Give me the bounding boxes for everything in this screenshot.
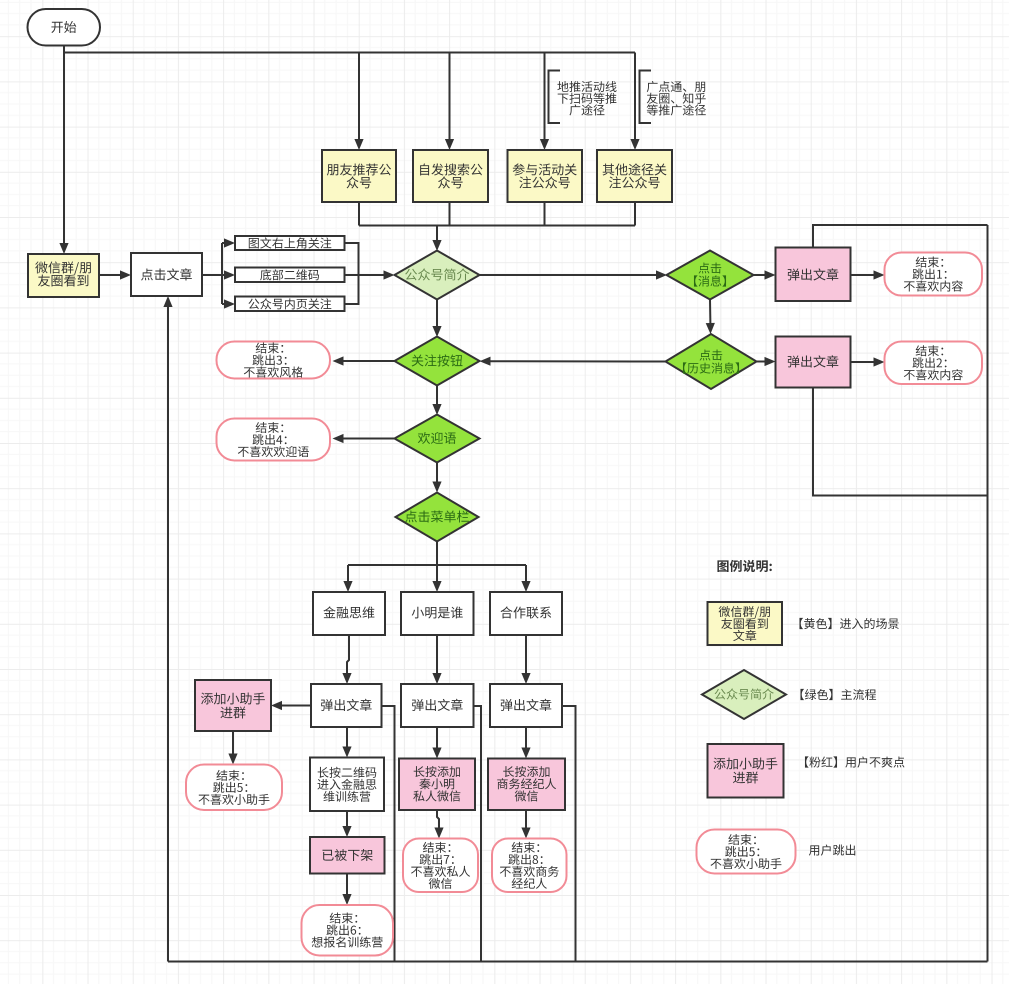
node pink 长按添加秦小明私人微信: [399, 759, 475, 811]
wire drop to yellow box1: [358, 53, 360, 141]
node yellow box4 其他途径关注公众号: [597, 150, 672, 202]
legend end box 结束跳出5 不喜欢小助手: [697, 830, 796, 874]
legend label 粉红用户不爽点: [805, 756, 904, 767]
wire add-broker down to end8: [525, 810, 527, 829]
wire menu-bar down and split to three menu boxes: [436, 542, 438, 565]
wire click-article split to three follow boxes: [202, 274, 222, 276]
wire drop to yellow box2: [449, 53, 451, 141]
node 长按二维码进入金融思维训练营: [310, 758, 384, 812]
node end6 结束跳出6 想报名训练营: [302, 905, 394, 956]
wire popupA down to long-press-qr: [346, 727, 348, 748]
wire popupC wrap down to bottom bus: [562, 706, 576, 962]
node yellow box2 自发搜索公众号: [413, 150, 488, 202]
legend yellow box 微信群朋友圈看到文章: [708, 602, 783, 645]
legend title 图例说明: [717, 560, 771, 572]
legend label 绿色主流程: [800, 689, 876, 700]
wire long-press-qr down to removed: [346, 811, 348, 827]
node diamond 点击菜单栏: [396, 493, 479, 542]
wire from start down to weixin-group box: [63, 46, 65, 245]
node popupA 弹出文章: [311, 684, 382, 727]
node pink popup1 弹出文章: [776, 248, 851, 302]
wire right vertical return: [987, 225, 989, 962]
node popupB 弹出文章: [401, 684, 474, 727]
node end2 结束跳出2 不喜欢内容: [885, 342, 983, 385]
wire popup2 bottom to right return: [813, 388, 988, 496]
wire three follow boxes merge to diamond1: [345, 243, 359, 304]
node start terminator 开始: [28, 9, 101, 46]
node yellow 微信群/朋友圈看到: [28, 254, 99, 297]
node 底部二维码: [235, 268, 345, 283]
node 图文右上角关注: [235, 236, 345, 250]
node pink popup2 弹出文章: [776, 337, 851, 388]
wire drop to yellow box3: [544, 53, 546, 141]
wire menu boxes down to popup articles: [347, 635, 349, 674]
wire follow-button down to welcome: [436, 386, 438, 406]
wire yellow boxes to merge bus: [358, 202, 360, 226]
node 公众号内页关注: [235, 297, 345, 312]
wire popup2 right to end2: [851, 361, 875, 363]
wire click-history left to follow-button: [490, 360, 666, 362]
node 点击文章: [131, 253, 202, 296]
node menu box 小明是谁: [401, 592, 474, 635]
wire removed down to end6: [346, 874, 348, 896]
wire follow-button left to end3: [343, 360, 395, 362]
legend label 用户跳出: [809, 844, 855, 855]
node menu box 金融思维: [313, 592, 385, 635]
wire add-helper down to end5: [232, 731, 234, 755]
wire popupB wrap down to bottom bus: [474, 706, 482, 962]
node pink 添加小助手进群: [195, 680, 271, 731]
node diamond 点击【消息】: [667, 251, 754, 300]
wire popupA wrap down to bottom bus: [382, 706, 395, 962]
annotation bracket left 地推活动线下扫码等推广途径: [549, 71, 561, 124]
node yellow box1 朋友推荐公众号: [322, 150, 396, 202]
node yellow box3 参与活动关注公众号: [508, 150, 583, 202]
wire popupA left to add-helper: [281, 705, 311, 707]
wire left return up into click-article: [167, 306, 169, 962]
node menu box 合作联系: [490, 592, 562, 635]
wire diamond1 right to click-message: [480, 274, 658, 276]
wire welcome left to end4: [343, 438, 395, 440]
wire click-history right to popup2: [757, 361, 766, 363]
legend pink box 添加小助手进群: [708, 744, 784, 798]
node end5 结束跳出5 不喜欢小助手: [186, 765, 282, 811]
wire click-message down to click-history: [709, 300, 711, 325]
node end4 结束跳出4 不喜欢欢迎语: [217, 419, 331, 461]
legend label 黄色进入的场景: [799, 618, 898, 629]
legend diamond 公众号简介: [702, 670, 786, 719]
node diamond 点击【历史消息】: [666, 334, 757, 389]
wire merge bus into diamond1: [436, 226, 438, 242]
node pink 长按添加商务经纪人微信: [488, 759, 565, 811]
annotation bracket right 广点通朋友圈知乎等推广途径: [640, 71, 652, 124]
wire add-qinxiaoming down to end7: [437, 810, 439, 829]
wire weixin-group to click-article: [99, 274, 121, 276]
wire popupB down to add-qinxiaoming: [436, 727, 438, 749]
node end8 结束跳出8 不喜欢商务经纪人: [492, 839, 567, 893]
node pink 已被下架: [310, 837, 385, 874]
node end7 结束跳出7 不喜欢私人微信: [403, 839, 478, 893]
wire diamond1 down to follow-button: [436, 300, 438, 328]
wire welcome down to menu-bar: [436, 463, 438, 483]
wire popup1 right to end1: [851, 274, 875, 276]
wire click-message right to popup1: [754, 274, 766, 276]
node diamond 公众号简介: [395, 251, 480, 300]
node popupC 弹出文章: [490, 684, 562, 727]
wire popup1 top to right return: [813, 225, 988, 248]
wire popupC down to add-broker: [525, 727, 527, 749]
node diamond 欢迎语: [395, 415, 480, 463]
node diamond 关注按钮: [395, 337, 480, 386]
wire bottom bus: [168, 961, 988, 963]
wire top bus: [64, 52, 635, 54]
node end3 结束跳出3 不喜欢风格: [217, 342, 331, 379]
node end1 结束跳出1 不喜欢内容: [885, 253, 983, 296]
wire drop to yellow box4: [634, 53, 636, 141]
